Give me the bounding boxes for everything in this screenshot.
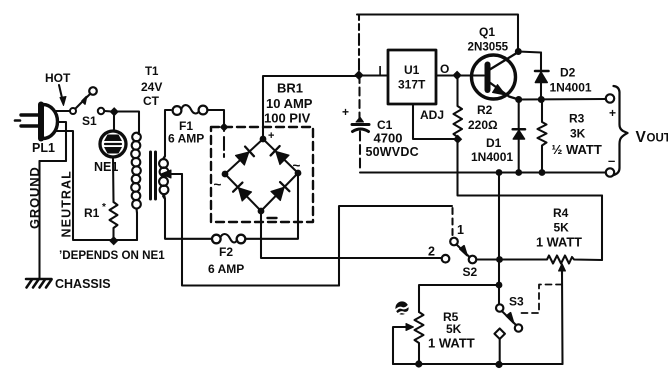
potentiometer R5: [415, 312, 424, 364]
capacitor C1: [352, 75, 369, 172]
collector node junction: [515, 48, 522, 55]
plug PL1: [15, 105, 57, 139]
bridge diode bottom-left: [233, 183, 251, 201]
node F1-box junction: [220, 123, 229, 132]
wire R2 node down to R4 line: [458, 142, 603, 196]
S3 to R4 wiper mechanical dashed link: [517, 285, 562, 314]
fuse F1: [173, 105, 208, 115]
wire F1 to bridge: [208, 110, 225, 126]
wire neutral rail: [73, 239, 137, 241]
svg-text:U1: U1: [404, 63, 420, 77]
switch S1: [70, 87, 104, 114]
center tap arrow: [161, 170, 182, 178]
output - terminal: [606, 168, 614, 176]
svg-text:100 PIV: 100 PIV: [264, 111, 311, 126]
svg-text:BR1: BR1: [277, 81, 303, 96]
wire input node to U1: [359, 74, 388, 76]
svg-text:T1: T1: [145, 66, 159, 78]
neon lamp NE1: [100, 131, 126, 157]
output brace: [614, 86, 628, 175]
node O junction: [452, 71, 461, 80]
bridge diamond wires: [225, 139, 298, 211]
R4 wiper wire down: [499, 271, 563, 364]
svg-text:CHASSIS: CHASSIS: [55, 277, 111, 291]
svg-text:+: +: [342, 105, 349, 119]
bridge vertex dots: [260, 136, 267, 143]
chassis ground symbol: [26, 279, 52, 288]
svg-text:’DEPENDS ON NE1: ’DEPENDS ON NE1: [59, 249, 165, 262]
fuse F2: [212, 234, 245, 243]
transistor Q1: [472, 53, 519, 100]
svg-text:R4: R4: [553, 206, 569, 220]
svg-text:NE1: NE1: [94, 160, 118, 174]
wire R5 top: [419, 285, 499, 312]
neutral stub from plug: [56, 131, 73, 239]
ground stub from plug: [57, 122, 66, 161]
R5 screw symbol: [395, 301, 410, 315]
center tap wire: [182, 174, 339, 286]
svg-text:F2: F2: [219, 245, 233, 259]
svg-text:R1: R1: [84, 206, 100, 220]
node S2 junction: [496, 256, 503, 263]
transformer T1 secondary: [159, 156, 168, 199]
transformer core: [151, 152, 156, 199]
wire plug to S1: [56, 110, 70, 112]
svg-text:1 WATT: 1 WATT: [536, 235, 582, 250]
D2 bottom junction: [538, 96, 545, 103]
diode D1: [513, 100, 525, 173]
wire collector to D2: [518, 52, 541, 53]
R5 wiper arrow: [393, 324, 414, 365]
resistor R2: [454, 79, 463, 140]
svg-text:S1: S1: [82, 114, 97, 128]
svg-text:CT: CT: [143, 94, 160, 108]
bridge diode bottom-right: [271, 182, 289, 200]
transformer T1 primary: [131, 132, 141, 214]
svg-text:–: –: [608, 153, 615, 168]
ground wire down: [38, 161, 40, 278]
svg-text:OUT: OUT: [647, 133, 668, 145]
diode D2: [535, 53, 549, 100]
svg-text:~: ~: [214, 177, 222, 192]
svg-text:PL1: PL1: [32, 141, 55, 155]
top rail: [358, 15, 360, 71]
node B junction (neutral rail): [109, 236, 118, 245]
svg-text:24V: 24V: [141, 80, 162, 94]
label bridge minus: [268, 217, 277, 219]
svg-text:220Ω: 220Ω: [468, 118, 498, 132]
svg-text:D2: D2: [560, 66, 576, 80]
HOT arrow: [59, 85, 66, 106]
switch S2: [442, 208, 496, 263]
svg-text:317T: 317T: [398, 78, 426, 92]
R4 wiper arrow: [559, 264, 566, 276]
svg-text:+: +: [268, 130, 274, 142]
svg-text:GROUND: GROUND: [27, 166, 42, 229]
output + terminal: [606, 94, 614, 102]
neg rail junction dots: [496, 169, 503, 176]
negative rail: [360, 171, 607, 173]
wire S1 to node A: [105, 110, 113, 113]
svg-text:Q1: Q1: [479, 25, 495, 39]
svg-text:6 AMP: 6 AMP: [168, 132, 204, 146]
svg-text:S2: S2: [463, 265, 478, 279]
svg-text:1 WATT: 1 WATT: [428, 336, 475, 351]
svg-text:1N4001: 1N4001: [471, 150, 513, 164]
svg-text:D1: D1: [486, 136, 502, 150]
wire CT riser to S2 line: [339, 206, 452, 286]
svg-text:S3: S3: [509, 295, 524, 309]
ground crossbar: [40, 160, 67, 162]
svg-text:3K: 3K: [570, 127, 586, 141]
resistor R1: [110, 202, 118, 240]
svg-text:2N3055: 2N3055: [468, 41, 509, 54]
potentiometer R4 right edge: [601, 196, 603, 261]
svg-text:V: V: [636, 129, 647, 146]
svg-text:50WVDC: 50WVDC: [366, 145, 419, 159]
dashed lead into bridge left vertex: [223, 131, 225, 171]
input node junction: [354, 70, 364, 80]
resistor R3: [538, 100, 547, 173]
bridge BR1 dashed box: [211, 127, 313, 222]
svg-text:NEUTRAL: NEUTRAL: [60, 170, 74, 237]
svg-text:5K: 5K: [554, 221, 570, 235]
svg-text:I: I: [379, 66, 382, 78]
wire F2 to bridge right vertex: [246, 176, 299, 239]
svg-text:½ WATT: ½ WATT: [552, 142, 602, 157]
emitter rail: [519, 98, 606, 101]
bottom rail: [393, 363, 563, 365]
bridge diode top-left: [236, 147, 254, 165]
svg-text:R3: R3: [569, 112, 585, 126]
svg-text:10 AMP: 10 AMP: [266, 96, 313, 111]
wire neg node down to S3: [498, 173, 500, 305]
emitter node junction: [515, 96, 522, 103]
wire node A to transformer primary: [117, 112, 139, 133]
wire bridge + to input rail: [263, 76, 358, 139]
wire rail to primary bottom: [136, 213, 138, 240]
svg-text:~: ~: [293, 158, 301, 173]
wire node A to NE1: [113, 114, 115, 130]
switch S3: [494, 304, 522, 364]
bottom rail junctions: [415, 360, 422, 367]
svg-text:1: 1: [457, 223, 464, 237]
wire ADJ: [413, 104, 454, 139]
node R5-top junction: [496, 282, 503, 289]
wire NE1 to R1: [112, 158, 115, 203]
svg-text:5K: 5K: [446, 322, 462, 336]
ADJ node junction: [453, 135, 462, 144]
bridge diode top-right: [271, 146, 289, 164]
svg-text:4700: 4700: [374, 131, 403, 146]
svg-text:1N4001: 1N4001: [550, 81, 592, 95]
wire secondary bottom to F2: [163, 196, 212, 239]
svg-text:+: +: [609, 106, 616, 120]
wire bridge - down: [261, 211, 444, 258]
svg-text:6 AMP: 6 AMP: [208, 262, 244, 276]
svg-text:2: 2: [428, 245, 435, 259]
svg-text:O: O: [440, 62, 449, 76]
svg-text:HOT: HOT: [45, 71, 71, 85]
svg-text:*: *: [102, 202, 106, 213]
wire U1 out to Q1 base: [436, 74, 484, 76]
node A junction: [110, 107, 119, 116]
svg-text:ADJ: ADJ: [420, 108, 444, 122]
svg-text:R2: R2: [477, 103, 493, 117]
potentiometer R4 element: [476, 256, 602, 264]
regulator U1 box: [388, 50, 436, 104]
wire secondary top to F1: [163, 110, 171, 159]
